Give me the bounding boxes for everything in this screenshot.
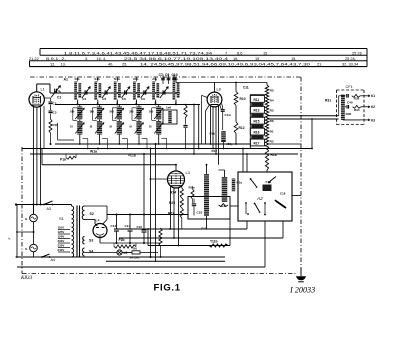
svg-text:1a6: 1a6 — [166, 106, 171, 110]
svg-text:FIG.1: FIG.1 — [154, 283, 181, 294]
component box stage2 — [188, 197, 230, 220]
resistor R10 — [235, 83, 237, 92]
svg-text:CF1: CF1 — [346, 85, 353, 89]
svg-text:C13: C13 — [111, 224, 117, 228]
wire bus y229 — [119, 228, 247, 230]
shielded coil box — [163, 110, 177, 124]
resistor T11b — [209, 244, 228, 247]
svg-text:R2: R2 — [270, 140, 274, 144]
capacitor row1 CF1 — [346, 94, 348, 98]
transformer S1 primary — [72, 206, 74, 257]
capacitor C10 — [173, 75, 175, 85]
terminal K1 — [360, 95, 370, 97]
transformer core — [76, 206, 78, 258]
svg-text:S3: S3 — [89, 239, 93, 243]
wire grid line to tube L8 — [176, 82, 267, 84]
svg-text:L4: L4 — [96, 219, 100, 223]
wire coil row1 stubs — [97, 77, 99, 82]
svg-text:C7: C7 — [159, 73, 163, 77]
wire ladder left rail — [249, 95, 251, 149]
svg-text:C6: C6 — [141, 97, 145, 101]
fuse S6 — [132, 251, 140, 254]
svg-text:15: 15 — [255, 56, 259, 61]
svg-text:R24: R24 — [170, 191, 176, 195]
resistor R34 — [353, 105, 362, 108]
switch arm 4 — [276, 201, 286, 208]
svg-text:3,: 3, — [85, 56, 88, 61]
wire lamp row — [85, 252, 117, 254]
resistor box R17 — [250, 139, 264, 146]
wire verticals to upper block — [143, 154, 145, 215]
svg-text:125V: 125V — [58, 230, 65, 234]
svg-text:15.: 15. — [291, 56, 296, 61]
svg-text:K3: K3 — [371, 118, 375, 122]
wire x312 drop — [311, 119, 313, 149]
coil row1 24a — [173, 82, 176, 100]
svg-text:L8: L8 — [217, 88, 221, 92]
coil band 4 — [251, 136, 263, 139]
capacitor C2 — [44, 97, 51, 99]
relay contact block C12 — [263, 185, 272, 192]
coil row2 lower — [156, 121, 161, 135]
wire row2 connections — [79, 105, 81, 107]
svg-text:23,5 34,56,6,10,77,19,105,13,4: 23,5 34,56,6,10,77,19,105,13,40,4 — [124, 56, 229, 61]
svg-text:5l6: 5l6 — [149, 110, 154, 114]
winding S4 — [83, 248, 85, 256]
svg-text:200V: 200V — [58, 239, 65, 243]
variable capacitor row1 — [162, 90, 164, 94]
coil row2 lower — [136, 121, 141, 135]
wire row2 bus — [55, 104, 200, 106]
filter box CF1 outline — [337, 89, 365, 91]
capacitor C7 — [162, 75, 164, 85]
svg-text:R3: R3 — [270, 108, 274, 112]
svg-text:T11b: T11b — [210, 240, 218, 244]
svg-text:R17: R17 — [254, 141, 260, 145]
wire ladder to filter upper — [267, 115, 339, 117]
wire tube L8 top lead — [214, 83, 216, 93]
wire row2 left corner — [57, 123, 59, 140]
contacts inside A2 — [245, 202, 247, 204]
svg-text:5l: 5l — [129, 125, 132, 129]
svg-text:3l6: 3l6 — [129, 110, 134, 114]
svg-text:R4: R4 — [270, 98, 274, 102]
coil row2 upper 5l6 — [117, 107, 122, 120]
svg-text:I 20033: I 20033 — [289, 286, 315, 295]
wire CF1 internal riser — [338, 96, 340, 116]
svg-text:5l6: 5l6 — [70, 110, 75, 114]
resistor box R16 — [250, 128, 264, 135]
svg-text:K2: K2 — [371, 105, 375, 109]
wire coil row1 stubs — [116, 77, 118, 82]
svg-text:C5: C5 — [102, 97, 106, 101]
svg-text:16, 4,: 16, 4, — [97, 56, 107, 61]
wire coil row1 stubs — [155, 77, 157, 82]
svg-text:5l8: 5l8 — [90, 110, 95, 114]
svg-text:+C1y: +C1y — [226, 142, 234, 146]
wire coil row1 stubs — [136, 77, 138, 82]
svg-text:S1: S1 — [59, 216, 65, 221]
svg-text:8,9,1, 2,: 8,9,1, 2, — [46, 56, 66, 61]
wire A2 to shield — [292, 195, 301, 197]
wire mains top — [16, 204, 72, 206]
svg-text:1,8,11,6,7,3,4,6,41,43,45,46,4: 1,8,11,6,7,3,4,6,41,43,45,46,47,17,18,48… — [64, 50, 213, 55]
chassis shield boundary right — [300, 77, 302, 271]
svg-text:S6: S6 — [133, 247, 137, 251]
resistor R18 — [265, 149, 268, 170]
coil row2 upper 5l8 — [97, 107, 102, 120]
svg-text:R12: R12 — [239, 126, 245, 130]
wire ladder bottom out — [267, 143, 301, 145]
wire coil row1 stubs — [77, 77, 79, 82]
lamp L5 — [117, 250, 122, 255]
wire bus y148 — [22, 148, 312, 150]
svg-text:A3: A3 — [47, 207, 52, 211]
switch arm 1 — [251, 179, 257, 186]
coil row1 34b — [133, 82, 136, 100]
generator G2 — [30, 244, 38, 252]
resistor in box — [219, 204, 229, 207]
resistor R25 — [180, 198, 183, 208]
svg-text:R16: R16 — [254, 131, 260, 135]
wire bus y245 — [148, 245, 230, 247]
switch arm 2 — [269, 177, 276, 183]
svg-text:W1a: W1a — [90, 150, 97, 154]
resistor R19 — [159, 228, 162, 246]
svg-text:R1: R1 — [270, 129, 274, 133]
terminal K2 — [361, 106, 370, 108]
svg-text:R35: R35 — [354, 97, 360, 101]
resistor mid — [184, 105, 187, 118]
svg-text:R15: R15 — [254, 120, 260, 124]
wire coil tops — [206, 165, 208, 174]
svg-text:R13: R13 — [254, 109, 260, 113]
coil L10 — [222, 112, 224, 130]
svg-text:14, 24,50,45,97,98,51,94,66,69: 14, 24,50,45,97,98,51,94,66,69,10,49,6,9… — [140, 62, 311, 67]
svg-text:R30: R30 — [346, 112, 352, 116]
svg-text:21.: 21. — [317, 62, 322, 67]
resistor R27 — [180, 208, 183, 218]
capacitor C1 variable — [54, 89, 56, 94]
wire tube L1 top lead — [36, 84, 38, 92]
svg-text:C40: C40 — [347, 101, 353, 105]
svg-text:13,: 13, — [61, 62, 66, 67]
svg-text:C1w: C1w — [225, 113, 232, 117]
capacitor C9 — [168, 75, 170, 85]
variable capacitor row1 — [84, 90, 86, 94]
svg-text:110V: 110V — [58, 226, 65, 230]
svg-text:220V: 220V — [58, 244, 65, 248]
svg-text:R25: R25 — [169, 201, 175, 205]
wire drops into A2 — [242, 149, 244, 173]
wire G chain — [33, 205, 35, 215]
svg-text:R11: R11 — [254, 98, 260, 102]
coil row1 24y — [152, 82, 155, 100]
wire verticals mid — [193, 105, 195, 155]
svg-text:34b: 34b — [94, 77, 99, 81]
svg-text:S2: S2 — [90, 212, 94, 216]
svg-text:16,: 16, — [233, 56, 238, 61]
svg-text:12,: 12, — [50, 62, 55, 67]
svg-text:15: 15 — [263, 50, 267, 55]
coil band 3 — [251, 125, 263, 128]
capacitor C13 — [114, 228, 119, 230]
resistor R12 — [235, 105, 237, 121]
resistor box R15 — [250, 117, 264, 124]
svg-text:L1: L1 — [41, 87, 45, 92]
resistor box R13 — [250, 106, 264, 113]
switch arm 3 — [255, 204, 259, 211]
svg-text:R1w: R1w — [189, 186, 196, 190]
wire row2 connections — [138, 105, 140, 107]
coil L6 — [222, 177, 228, 202]
chassis shield boundary left — [21, 147, 23, 274]
terminal strip frame lines — [40, 48, 367, 50]
wire A2 bottom drops — [246, 221, 248, 229]
capacitor C14 — [128, 228, 133, 230]
svg-text:C2: C2 — [53, 102, 57, 106]
svg-text:C18: C18 — [280, 191, 286, 195]
terminal K3 — [343, 119, 360, 121]
wire tube L8 bottom leads — [206, 106, 210, 112]
svg-text:C6: C6 — [122, 97, 126, 101]
svg-text:K1: K1 — [371, 94, 375, 98]
svg-text:≈C1a: ≈C1a — [128, 153, 136, 157]
resistor P1a — [66, 156, 76, 159]
resistor P2b — [114, 245, 136, 248]
svg-text:24y: 24y — [152, 77, 157, 81]
wire bus y144 — [55, 143, 250, 145]
svg-text:C14: C14 — [125, 224, 131, 228]
wire row2 connections — [118, 105, 120, 107]
coil band 2 — [251, 114, 263, 117]
svg-text:K833: K833 — [20, 275, 33, 281]
wire L3 top lead — [175, 165, 177, 171]
svg-text:21,22: 21,22 — [29, 56, 39, 61]
svg-text:7: 7 — [225, 50, 227, 55]
svg-text:C13: C13 — [201, 226, 207, 230]
wire verticals lower — [147, 229, 149, 246]
wire coil row1 stubs — [175, 77, 177, 82]
tube L1 — [29, 92, 44, 107]
svg-text:R12: R12 — [212, 149, 218, 153]
coil row1 14b — [74, 82, 77, 100]
wire bus y154 — [30, 153, 298, 155]
svg-text:5l: 5l — [110, 125, 113, 129]
svg-text:L5: L5 — [124, 251, 128, 255]
coil L5 tall — [204, 174, 209, 216]
wire bus y238 — [119, 237, 283, 239]
svg-text:8,6: 8,6 — [237, 50, 242, 55]
wire mains left — [16, 205, 18, 258]
wire L4 cathode — [99, 236, 101, 243]
coil row1 5l4b — [114, 82, 117, 100]
primary taps — [58, 229, 70, 231]
svg-text:R31: R31 — [325, 99, 331, 103]
switch A4 — [42, 254, 50, 257]
svg-text:C11: C11 — [243, 86, 249, 90]
capacitor C3 — [50, 105, 52, 111]
svg-text:C16: C16 — [137, 225, 143, 229]
capacitor C1w — [222, 104, 223, 108]
wire L3 leads down — [170, 187, 172, 229]
coil row2 lower — [77, 121, 82, 135]
svg-text:25 26,: 25 26, — [345, 56, 356, 61]
coil row2 lower — [97, 121, 102, 135]
wire box verticals — [206, 216, 208, 229]
svg-text:P2b: P2b — [119, 238, 125, 242]
svg-text:25,: 25, — [122, 62, 127, 67]
wire row2 connections — [99, 105, 101, 107]
svg-text:25 26: 25 26 — [352, 50, 362, 55]
resistor P1b — [50, 114, 52, 120]
svg-text:L3: L3 — [186, 170, 190, 175]
wire ladder to filter lower — [267, 118, 339, 120]
svg-text:A2: A2 — [256, 196, 263, 201]
coil row2 upper 3l6 — [136, 107, 141, 120]
svg-text:A4: A4 — [51, 258, 56, 262]
wire row1 bus — [50, 92, 180, 94]
switch A3 — [44, 201, 53, 205]
svg-text:R6: R6 — [270, 119, 274, 123]
coil row2 upper 5l6 — [156, 107, 161, 120]
wire S2 to rectifier — [85, 205, 108, 207]
capacitor mid — [185, 118, 187, 125]
svg-text:C9: C9 — [165, 73, 169, 77]
svg-text:R34: R34 — [354, 108, 360, 112]
capacitor C16 — [143, 215, 145, 230]
capacitor in box — [193, 199, 195, 204]
coil L7 — [232, 179, 235, 192]
winding S2 — [82, 206, 84, 220]
wire row2 connections — [158, 105, 160, 107]
svg-text:240V: 240V — [58, 248, 65, 252]
svg-text:5l6: 5l6 — [110, 110, 115, 114]
svg-text:P1a: P1a — [60, 158, 66, 162]
tube L3 — [168, 171, 185, 188]
svg-text:40,: 40, — [108, 62, 113, 67]
svg-text:C23: C23 — [197, 211, 203, 215]
tube L8 — [207, 92, 222, 107]
wire bus y164 — [42, 164, 176, 166]
svg-text:5l4b: 5l4b — [114, 77, 120, 81]
variable capacitor row1 — [143, 90, 145, 94]
svg-text:C12: C12 — [266, 180, 272, 184]
coil band 1 — [251, 103, 263, 106]
svg-text:5l: 5l — [90, 125, 93, 129]
capacitor row2 CF1 — [345, 106, 346, 108]
winding S3 — [83, 237, 85, 245]
svg-text:5l: 5l — [70, 125, 73, 129]
variable capacitor row1 — [104, 90, 106, 94]
wire B+ lines — [100, 242, 161, 244]
ground symbol — [300, 268, 302, 276]
bottom rails — [16, 256, 226, 258]
svg-text:C1: C1 — [57, 96, 61, 100]
svg-text:R10: R10 — [240, 97, 246, 101]
svg-text:34b: 34b — [133, 77, 138, 81]
chassis shield boundary top — [30, 76, 301, 78]
coil row2 lower — [117, 121, 122, 135]
switch box A2 outline — [238, 172, 292, 221]
resistor chain vertical — [265, 85, 268, 149]
resistor box R11 — [250, 96, 264, 103]
svg-text:R5: R5 — [270, 89, 274, 93]
svg-text:C4: C4 — [82, 97, 86, 101]
coil in CF1 — [341, 95, 345, 120]
svg-text:14b: 14b — [74, 77, 79, 81]
variable capacitor row1 — [124, 90, 126, 94]
svg-text:5l: 5l — [149, 125, 152, 129]
svg-text:R18: R18 — [271, 153, 277, 157]
svg-text:24a: 24a — [173, 77, 178, 81]
generator G1 — [30, 214, 38, 222]
tube L4 rectifier — [93, 224, 107, 238]
svg-text:C3: C3 — [53, 111, 57, 115]
wire left of tube — [202, 95, 208, 97]
coil row1 34b — [94, 82, 97, 100]
resistor R35 — [352, 94, 360, 97]
svg-text:A1: A1 — [64, 78, 69, 82]
svg-text:R2y: R2y — [237, 181, 243, 185]
resistor R24 — [180, 188, 183, 198]
chassis shield boundary bottom — [22, 273, 297, 275]
svg-text:150V: 150V — [58, 235, 65, 239]
coil row2 upper 5l6 — [77, 107, 82, 120]
wire tube L1 bottom leads — [32, 107, 34, 214]
svg-text:R1b: R1b — [210, 132, 216, 136]
svg-text:32, 33,34: 32, 33,34 — [342, 62, 359, 67]
